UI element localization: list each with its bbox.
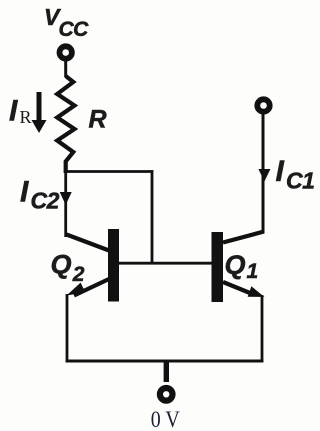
resistor R xyxy=(57,76,74,173)
wire: Q1 collector up to terminal xyxy=(262,112,265,233)
label Q2 xyxy=(51,250,85,287)
transistor Q2 xyxy=(67,229,120,302)
wire: bottom rail xyxy=(66,360,264,363)
label Q1 xyxy=(225,250,259,283)
svg-text:1: 1 xyxy=(247,260,259,283)
svg-text:2: 2 xyxy=(72,263,85,286)
wire: Q2 emitter down to bottom rail xyxy=(66,294,69,363)
ground stub xyxy=(164,360,169,383)
wire: node down to Q2 collector xyxy=(64,170,67,237)
svg-text:R: R xyxy=(20,107,32,127)
label IR xyxy=(9,95,32,128)
label IC2 xyxy=(20,176,60,214)
wire: Q1 emitter down to bottom rail xyxy=(261,295,264,363)
wire: VCC terminal to resistor top xyxy=(64,59,67,78)
svg-text:I: I xyxy=(276,155,285,188)
svg-text:I: I xyxy=(9,95,18,128)
svg-text:R: R xyxy=(89,106,107,134)
label IC1 xyxy=(276,155,315,194)
svg-text:Q: Q xyxy=(51,250,72,280)
svg-text:C1: C1 xyxy=(286,168,314,194)
transistor Q1 xyxy=(212,232,265,303)
terminal (top right open circle) xyxy=(257,99,269,111)
svg-text:0 V: 0 V xyxy=(151,407,180,431)
arrow IC1 (arrowhead on wire) xyxy=(258,169,270,182)
arrow IC2 (arrowhead on wire) xyxy=(60,192,72,205)
wire: resistor bottom node horizontal to right xyxy=(64,170,153,173)
terminal 0V (open circle) xyxy=(160,388,173,401)
wire: right vertical down to base rail xyxy=(151,170,154,264)
wire: base rail Q2 to Q1 xyxy=(119,262,212,265)
arrow IR (current direction) xyxy=(32,92,47,133)
terminal VCC (open circle) xyxy=(59,46,71,58)
svg-text:CC: CC xyxy=(59,18,90,41)
label VCC xyxy=(44,4,89,41)
svg-text:I: I xyxy=(20,176,29,209)
svg-text:C2: C2 xyxy=(31,188,60,214)
svg-text:Q: Q xyxy=(225,250,246,280)
